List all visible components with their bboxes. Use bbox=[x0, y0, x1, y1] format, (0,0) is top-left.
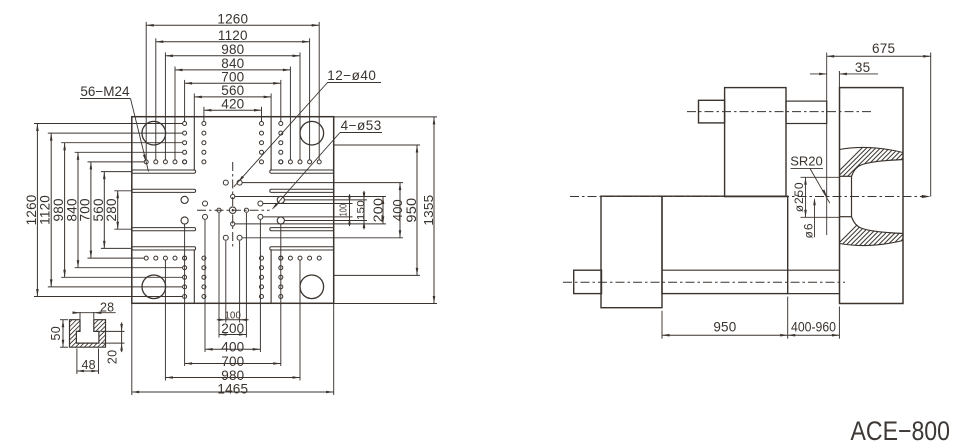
svg-text:950: 950 bbox=[404, 198, 419, 223]
svg-text:1260: 1260 bbox=[217, 12, 248, 27]
svg-text:400: 400 bbox=[221, 339, 244, 354]
svg-text:950: 950 bbox=[713, 320, 736, 335]
svg-text:700: 700 bbox=[221, 354, 244, 369]
svg-text:1465: 1465 bbox=[217, 382, 248, 397]
svg-text:100: 100 bbox=[338, 204, 349, 217]
svg-text:1120: 1120 bbox=[218, 28, 248, 43]
svg-text:200: 200 bbox=[371, 198, 386, 223]
svg-text:ø250: ø250 bbox=[792, 182, 806, 213]
svg-text:28: 28 bbox=[100, 301, 114, 315]
svg-text:20: 20 bbox=[106, 350, 120, 364]
svg-text:ø6: ø6 bbox=[802, 222, 816, 238]
svg-text:1355: 1355 bbox=[421, 195, 436, 226]
svg-text:675: 675 bbox=[872, 41, 895, 56]
svg-text:4−ø53: 4−ø53 bbox=[341, 118, 382, 133]
svg-text:1260: 1260 bbox=[24, 194, 39, 225]
svg-text:150: 150 bbox=[355, 200, 367, 220]
svg-text:280: 280 bbox=[104, 198, 119, 221]
svg-text:420: 420 bbox=[221, 97, 244, 112]
svg-text:980: 980 bbox=[221, 42, 244, 57]
svg-text:400-960: 400-960 bbox=[791, 320, 836, 335]
svg-text:12−ø40: 12−ø40 bbox=[327, 68, 376, 83]
svg-text:400: 400 bbox=[390, 199, 405, 221]
svg-text:SR20: SR20 bbox=[790, 154, 823, 169]
svg-text:48: 48 bbox=[82, 358, 96, 372]
svg-text:35: 35 bbox=[855, 60, 870, 75]
svg-text:50: 50 bbox=[49, 326, 63, 340]
svg-text:56−M24: 56−M24 bbox=[80, 84, 130, 99]
svg-text:ACE−800: ACE−800 bbox=[851, 416, 951, 444]
svg-text:200: 200 bbox=[221, 321, 244, 336]
svg-text:100: 100 bbox=[225, 309, 242, 321]
